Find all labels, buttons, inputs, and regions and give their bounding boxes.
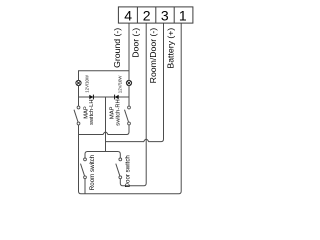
svg-text:12V/10W: 12V/10W [118,75,123,94]
svg-text:Room/Door (-): Room/Door (-) [148,28,158,84]
svg-text:12V/10W: 12V/10W [85,74,90,93]
svg-text:Room switch: Room switch [89,154,96,190]
svg-text:Door (-): Door (-) [130,28,140,58]
svg-text:2: 2 [143,8,151,24]
svg-text:Door switch: Door switch [124,155,131,188]
svg-text:MAP: MAP [109,106,115,119]
svg-text:switch-LH: switch-LH [89,99,95,124]
svg-text:3: 3 [161,8,169,24]
svg-text:switch-RH: switch-RH [116,99,122,125]
svg-text:Battery (+): Battery (+) [165,28,175,69]
svg-text:4: 4 [124,8,132,24]
svg-text:1: 1 [179,8,187,24]
svg-text:Ground (-): Ground (-) [112,28,122,68]
